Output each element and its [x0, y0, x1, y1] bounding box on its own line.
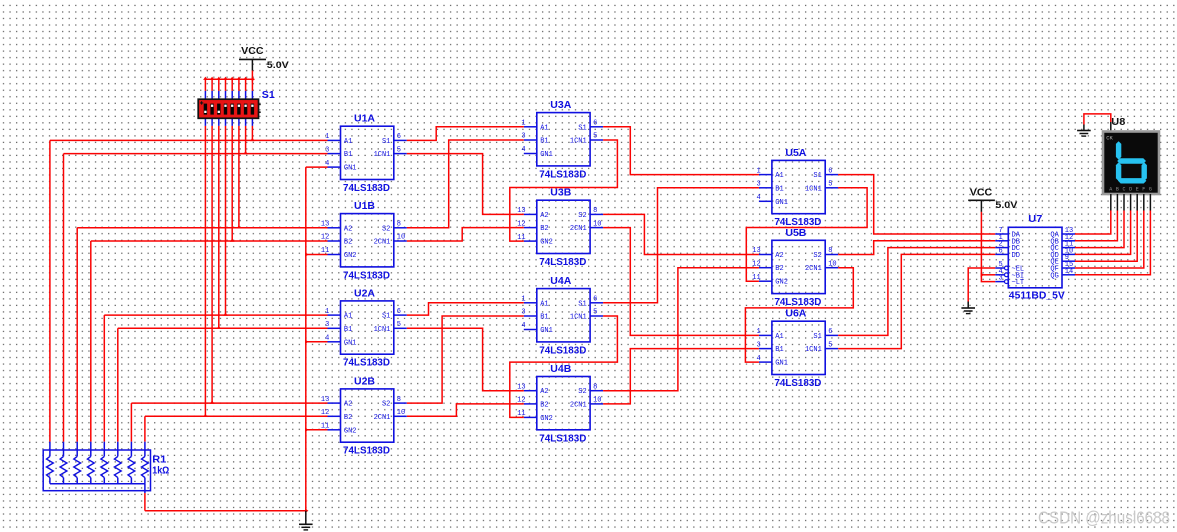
wire S1.7 to U1A pin3 B1 and R1	[245, 126, 247, 154]
svg-text:2CN1: 2CN1	[570, 401, 587, 409]
svg-text:E: E	[1136, 186, 1139, 192]
svg-text:74LS183D: 74LS183D	[774, 297, 821, 308]
svg-text:2CN1: 2CN1	[374, 239, 391, 247]
junction ground bus at U2A	[305, 340, 308, 345]
wire U2B pin8 S2 to U4A pin3 B1	[407, 316, 524, 403]
svg-text:A1: A1	[775, 333, 783, 341]
wire U2B pin10 2CN1 to U4B pin12 B2	[407, 404, 524, 416]
wire U5A pin6 S1 to U7 DA	[838, 175, 995, 234]
svg-text:U1A: U1A	[354, 114, 375, 125]
svg-text:1CN1: 1CN1	[570, 138, 587, 146]
junction at (212.1,403.1)	[210, 401, 215, 404]
svg-text:5.0V: 5.0V	[995, 200, 1018, 211]
svg-text:8: 8	[593, 207, 597, 215]
ground symbol at U8	[1077, 125, 1091, 137]
adder U4B 74LS183D	[517, 364, 603, 444]
wire S1 pin 15 to VCC rail	[245, 79, 247, 91]
adder U4A 74LS183D	[521, 276, 603, 356]
ground symbol bottom center	[299, 511, 313, 530]
svg-text:U3A: U3A	[550, 100, 571, 111]
resistor network R1 1kOhm (8 pull-downs)	[43, 442, 169, 493]
svg-text:S2: S2	[578, 212, 586, 220]
adder U2B 74LS183D	[321, 376, 407, 456]
wire S1 pin 14 to VCC rail	[238, 79, 240, 91]
svg-text:8: 8	[593, 383, 597, 391]
wire U4A pin5 1CN1 to U4B pin11 GN2	[510, 316, 618, 417]
wire U4B pin10 2CN1 to U6A pin3 B1	[603, 349, 759, 404]
svg-text:2CN1: 2CN1	[374, 414, 391, 422]
svg-text:GN1: GN1	[775, 360, 788, 368]
svg-text:10: 10	[593, 397, 601, 405]
wire ground bus branch to U2B pin 11 GN2	[306, 429, 328, 431]
svg-text:GN2: GN2	[540, 239, 553, 247]
svg-text:U4B: U4B	[550, 364, 571, 375]
wire S1 pin 11 to VCC rail	[218, 79, 220, 91]
svg-text:R1: R1	[152, 454, 166, 465]
wire U7 ~EL to ground	[968, 268, 995, 302]
adder U5B 74LS183D	[752, 228, 838, 308]
svg-text:G: G	[1149, 186, 1152, 192]
junction at (232.2,241.0)	[230, 238, 235, 241]
wire S1 pin 13 to VCC rail	[231, 79, 233, 91]
svg-text:GN2: GN2	[540, 415, 553, 423]
svg-text:74LS183D: 74LS183D	[343, 446, 390, 457]
svg-text:U6A: U6A	[785, 309, 806, 320]
svg-text:74LS183D: 74LS183D	[539, 257, 586, 268]
wire S1.1 to U2B pin12 B2 and R1	[204, 126, 206, 416]
svg-text:A1: A1	[344, 313, 352, 321]
wire ground bus branch to U1B pin 11 GN2	[306, 254, 328, 256]
svg-text:CSDN @zhusl6688: CSDN @zhusl6688	[1038, 508, 1170, 528]
svg-text:1CN1: 1CN1	[805, 346, 822, 354]
svg-text:A: A	[1109, 186, 1112, 192]
wire S1.2 to U2B pin13 A2 and R1	[211, 126, 213, 403]
svg-text:8: 8	[397, 396, 401, 404]
svg-text:74LS183D: 74LS183D	[539, 169, 586, 180]
svg-text:U7: U7	[1028, 214, 1042, 225]
svg-text:1CN1: 1CN1	[570, 314, 587, 322]
svg-text:D: D	[1129, 186, 1132, 192]
svg-text:6: 6	[397, 308, 401, 316]
wire VCC to U7 ~BI and ~LT	[981, 212, 995, 282]
svg-text:5: 5	[593, 309, 597, 317]
svg-text:B1: B1	[540, 314, 548, 322]
wire U8 segment D to U7 QD	[1130, 194, 1132, 211]
svg-text:10: 10	[397, 234, 405, 242]
wire U6A pin5 1CN1 to U7 DD	[838, 254, 995, 348]
ground symbol below U7	[961, 302, 975, 314]
svg-text:GN2: GN2	[775, 279, 788, 287]
svg-text:3: 3	[998, 275, 1002, 283]
wire S1.4 to U2A pin1 A1 and R1	[225, 126, 227, 315]
svg-text:B: B	[1116, 186, 1119, 192]
power symbol VCC (5.0V) top	[239, 46, 290, 71]
svg-text:A2: A2	[540, 212, 548, 220]
display U8 seven-segment	[1103, 132, 1159, 195]
svg-text:74LS183D: 74LS183D	[343, 358, 390, 369]
svg-text:6: 6	[828, 167, 832, 175]
wire S1 pin 10 to VCC rail	[211, 79, 213, 91]
svg-text:A2: A2	[540, 388, 548, 396]
junction ground bus at U2B	[305, 428, 308, 433]
svg-text:A1: A1	[540, 300, 548, 308]
svg-text:B1: B1	[775, 346, 783, 354]
svg-text:A2: A2	[775, 252, 783, 260]
wire R1 common to ground bus	[144, 493, 146, 511]
wire U8 segment G to U7 QG	[1149, 194, 1151, 211]
svg-text:~LT: ~LT	[1012, 279, 1025, 287]
svg-text:S1: S1	[578, 124, 586, 132]
svg-text:S1: S1	[813, 333, 821, 341]
adder U1B 74LS183D	[321, 201, 407, 281]
svg-text:GN1: GN1	[344, 339, 357, 347]
svg-text:VCC: VCC	[970, 188, 993, 199]
wire ground bus branch to U2A pin 4 GN1	[306, 341, 328, 343]
svg-text:1CN1: 1CN1	[374, 326, 391, 334]
svg-text:U3B: U3B	[550, 188, 571, 199]
junction ground bus at U1B	[305, 252, 308, 257]
svg-text:6: 6	[998, 247, 1002, 255]
svg-text:GN2: GN2	[344, 252, 357, 260]
svg-text:74LS183D: 74LS183D	[774, 378, 821, 389]
svg-text:5: 5	[828, 341, 832, 349]
svg-text:U8: U8	[1111, 117, 1125, 128]
wire S1 pin 16 to VCC rail	[251, 79, 253, 91]
wire U5A pin5 1CN1 to U5B pin11 GN2	[746, 188, 867, 281]
svg-text:B1: B1	[775, 185, 783, 193]
svg-text:6: 6	[593, 120, 597, 128]
svg-text:8: 8	[397, 221, 401, 229]
svg-text:GN1: GN1	[540, 327, 553, 335]
svg-text:B2: B2	[540, 401, 548, 409]
svg-text:10: 10	[593, 220, 601, 228]
svg-text:5: 5	[593, 133, 597, 141]
adder U1A 74LS183D	[325, 114, 407, 194]
adder U3B 74LS183D	[517, 188, 603, 268]
svg-text:B2: B2	[775, 265, 783, 273]
wire S1.3 to U2A pin3 B1 and R1	[218, 126, 220, 328]
wire U2A pin5 1CN1 to U4B pin13 A2	[407, 328, 524, 390]
junction at (218.8,328.3)	[217, 326, 222, 329]
decoder U7 4511BD_5V	[995, 214, 1075, 301]
svg-text:1CN1: 1CN1	[805, 185, 822, 193]
wire U4B pin8 S2 to U5B pin12 B2	[603, 268, 759, 391]
wire S1 pin 12 to VCC rail	[225, 79, 227, 91]
junction at (245.6,153.6)	[243, 151, 248, 154]
svg-text:GN1: GN1	[344, 165, 357, 173]
svg-text:74LS183D: 74LS183D	[343, 183, 390, 194]
svg-text:6: 6	[593, 296, 597, 304]
svg-text:4: 4	[756, 194, 760, 202]
wire U8 segment F to U7 QF	[1143, 194, 1145, 211]
svg-text:S1: S1	[262, 90, 275, 101]
wire U3A pin6 S1 to U5A pin1 A1	[603, 127, 759, 175]
wire ground bus: U1A pin4 GN1 down to ground	[306, 166, 328, 168]
svg-text:B2: B2	[540, 225, 548, 233]
svg-text:C: C	[1122, 186, 1125, 192]
wire VCC lead to switch rail	[251, 71, 253, 80]
wire U1A pin6 S1 to U3A pin1 A1	[407, 127, 524, 141]
wire U3A pin5 1CN1 to U3B pin11 GN2	[510, 140, 618, 241]
wire U8 segment C to U7 QC	[1123, 194, 1125, 211]
wire U1A pin5 1CN1 to U3B pin13 A2	[407, 154, 524, 215]
wire U2A pin6 S1 to U4A pin1 A1	[407, 303, 524, 315]
wire U5B pin8 S2 to U7 DB	[838, 241, 995, 255]
svg-text:S1: S1	[382, 138, 390, 146]
svg-text:4: 4	[521, 322, 525, 330]
svg-text:14: 14	[1065, 268, 1073, 276]
wire S1.5 to U1B pin12 B2 and R1	[231, 126, 233, 241]
svg-text:A1: A1	[540, 124, 548, 132]
svg-text:1CN1: 1CN1	[374, 151, 391, 159]
svg-text:QG: QG	[1050, 272, 1058, 280]
svg-text:U5B: U5B	[785, 228, 806, 239]
svg-text:GN1: GN1	[775, 199, 788, 207]
svg-text:S1: S1	[578, 300, 586, 308]
svg-text:U4A: U4A	[550, 276, 571, 287]
svg-text:74LS183D: 74LS183D	[774, 217, 821, 228]
svg-text:74LS183D: 74LS183D	[539, 345, 586, 356]
junction at (252.4,140.4)	[250, 138, 255, 141]
svg-text:74LS183D: 74LS183D	[539, 433, 586, 444]
svg-text:GN2: GN2	[344, 427, 357, 435]
wire U8 segment B to U7 QB	[1116, 194, 1118, 211]
svg-text:S1: S1	[382, 313, 390, 321]
svg-text:74LS183D: 74LS183D	[343, 270, 390, 281]
svg-text:6: 6	[397, 133, 401, 141]
svg-text:5.0V: 5.0V	[267, 60, 290, 71]
wire U3B pin8 S2 to U5B pin13 A2	[603, 214, 759, 254]
svg-text:S2: S2	[382, 401, 390, 409]
switch S1 (8x DIP)	[198, 90, 275, 126]
svg-text:F: F	[1142, 186, 1145, 192]
svg-text:U2B: U2B	[354, 376, 375, 387]
wire S1 pin 9 to VCC rail	[204, 79, 206, 91]
svg-text:B1: B1	[344, 151, 352, 159]
svg-text:S1: S1	[813, 172, 821, 180]
wire U8 segment E to U7 QE	[1136, 194, 1138, 211]
svg-text:10: 10	[828, 260, 836, 268]
svg-text:5: 5	[397, 321, 401, 329]
svg-text:B1: B1	[540, 138, 548, 146]
svg-text:5: 5	[828, 181, 832, 189]
svg-text:CK: CK	[1106, 135, 1113, 142]
wire U8 segment A to U7 QA	[1110, 194, 1112, 211]
svg-text:U1B: U1B	[354, 201, 375, 212]
svg-text:U2A: U2A	[354, 288, 375, 299]
wire U3B pin10 2CN1 to U6A pin1 A1	[603, 228, 759, 336]
svg-text:A2: A2	[344, 401, 352, 409]
svg-text:S2: S2	[813, 252, 821, 260]
svg-text:B2: B2	[344, 239, 352, 247]
wire S1.6 to U1B pin13 A2 and R1	[238, 126, 240, 228]
svg-text:A2: A2	[344, 225, 352, 233]
wire U8 CK to ground	[1084, 114, 1111, 125]
wire U5B pin10 2CN1 to U6A pin4 GN1	[745, 268, 853, 362]
junction ground bus bottom	[305, 508, 308, 513]
svg-text:5: 5	[397, 146, 401, 154]
junction at (238.9,227.8)	[237, 225, 242, 228]
svg-text:B1: B1	[344, 326, 352, 334]
svg-text:8: 8	[828, 247, 832, 255]
wire S1.8 to U1A pin1 A1 and R1	[251, 126, 253, 140]
junction at (225.5,315.1)	[223, 313, 228, 316]
svg-text:1kΩ: 1kΩ	[152, 466, 169, 477]
wire U4A pin6 S1 to U5A pin3 B1	[603, 188, 759, 303]
svg-text:A1: A1	[775, 172, 783, 180]
wire U6A pin6 S1 to U7 DC	[838, 248, 995, 336]
svg-text:VCC: VCC	[241, 46, 264, 57]
adder U3A 74LS183D	[521, 100, 603, 180]
svg-text:S2: S2	[382, 225, 390, 233]
svg-text:S2: S2	[578, 388, 586, 396]
svg-text:DD: DD	[1012, 252, 1020, 260]
adder U2A 74LS183D	[325, 288, 407, 368]
svg-text:B2: B2	[344, 414, 352, 422]
svg-text:10: 10	[397, 409, 405, 417]
svg-text:A1: A1	[344, 138, 352, 146]
wire VCC rail above S1	[205, 78, 252, 80]
svg-text:2CN1: 2CN1	[805, 265, 822, 273]
wire U1B pin10 2CN1 to U3B pin12 B2	[407, 228, 524, 241]
power symbol VCC (5.0V) at U7	[968, 188, 1018, 212]
svg-text:4511BD_5V: 4511BD_5V	[1009, 290, 1065, 301]
svg-text:U5A: U5A	[785, 148, 806, 159]
adder U6A 74LS183D	[756, 309, 838, 389]
junction VCC branch at ~BI	[981, 273, 984, 278]
svg-text:GN1: GN1	[540, 151, 553, 159]
adder U5A 74LS183D	[756, 148, 838, 228]
junction VCC rail right end	[252, 77, 255, 82]
svg-text:2CN1: 2CN1	[570, 225, 587, 233]
svg-text:4: 4	[521, 146, 525, 154]
wire U1B pin8 S2 to U3A pin3 B1	[407, 140, 524, 228]
junction at (205.4,416.3)	[203, 414, 208, 417]
svg-text:6: 6	[828, 328, 832, 336]
